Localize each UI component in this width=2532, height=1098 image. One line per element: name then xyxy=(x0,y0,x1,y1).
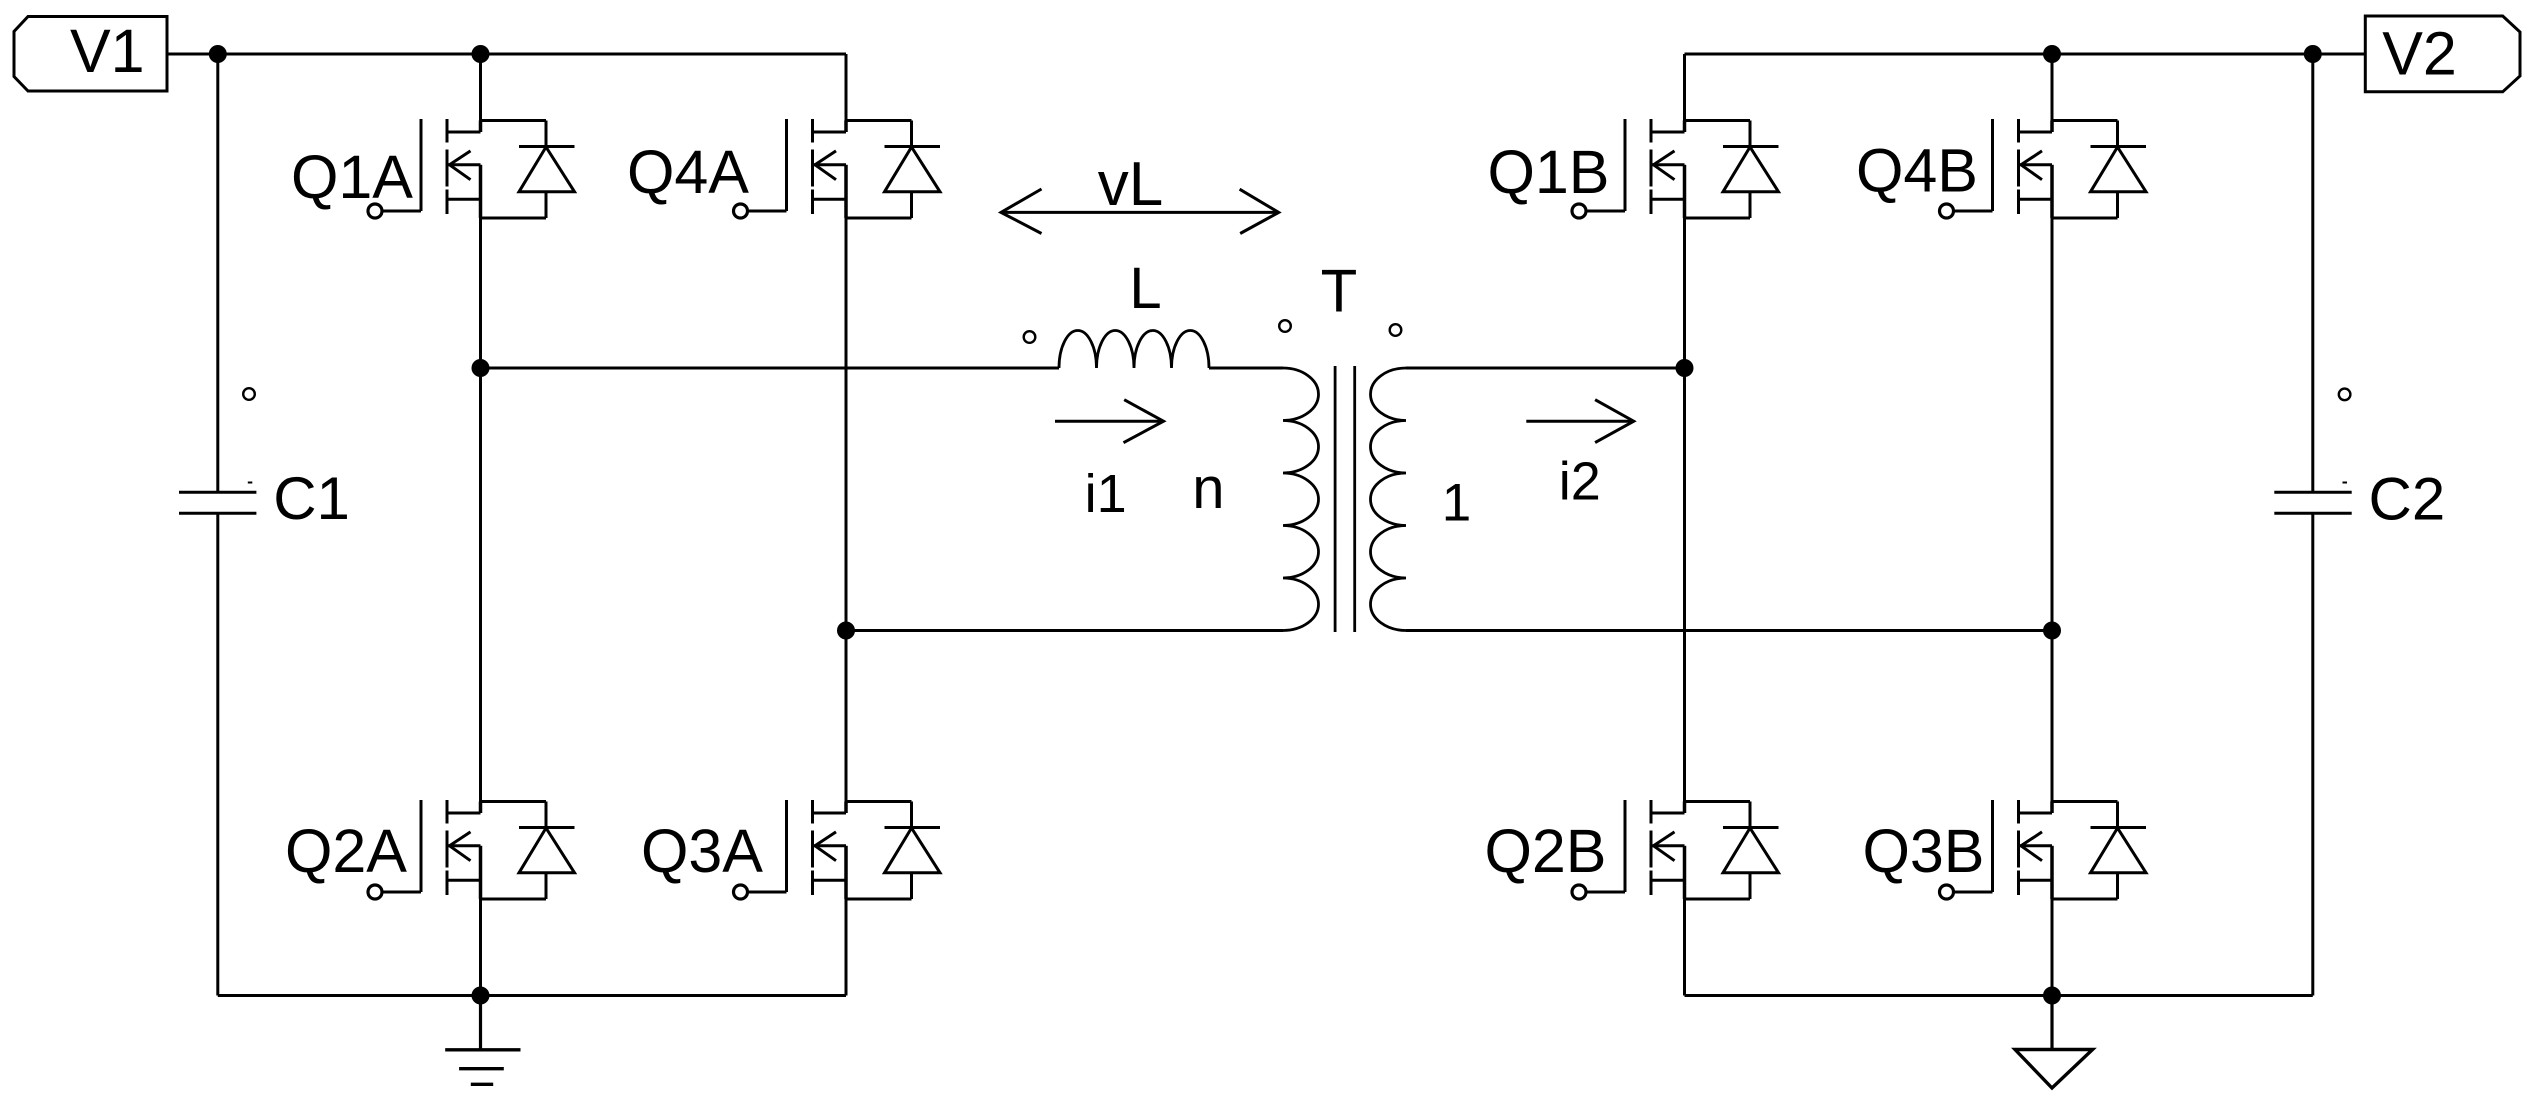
wire: Q4A source down to primary-return node xyxy=(845,218,848,631)
svg-text:n: n xyxy=(1192,456,1224,521)
svg-text:Q4B: Q4B xyxy=(1856,137,1978,205)
net flag V1 xyxy=(14,17,167,92)
wire: Q4A leg above transistor xyxy=(845,54,848,121)
svg-text:L: L xyxy=(1129,256,1161,321)
node: right bridge midpoint A xyxy=(1676,359,1694,377)
polarity mark T secondary xyxy=(1390,324,1402,336)
wire: left bottom rail xyxy=(218,994,846,997)
ground (earth) left xyxy=(479,996,482,1050)
transistor Q1A xyxy=(368,119,575,218)
svg-text:Q3B: Q3B xyxy=(1862,817,1984,885)
svg-text:i2: i2 xyxy=(1559,452,1601,512)
wire: secondary return to Q4B/Q3B node xyxy=(1406,629,2052,632)
transistor Q3B xyxy=(1940,800,2147,899)
svg-text:C1: C1 xyxy=(273,465,350,532)
wire: Q3A source to bottom rail xyxy=(845,899,848,996)
svg-text:Q4A: Q4A xyxy=(627,138,749,206)
wire: right top rail xyxy=(1685,53,2366,56)
wire: inductor to transformer primary xyxy=(1209,367,1283,370)
node: bottom ground junction (right) xyxy=(2043,987,2061,1005)
wire: mid node to inductor xyxy=(481,367,1060,370)
current arrow i2 xyxy=(1526,420,1633,423)
voltage arrow vL xyxy=(1001,211,1279,214)
transformer T core xyxy=(1335,366,1355,632)
transistor Q1B xyxy=(1572,119,1779,218)
wire: Q1A leg above transistor xyxy=(479,54,482,121)
wire: C1 rail lower xyxy=(216,513,219,995)
svg-text:T: T xyxy=(1321,258,1358,325)
wire: C2 rail lower xyxy=(2311,513,2314,995)
wire: mid node down to Q2A drain xyxy=(479,368,482,802)
wire: C2 rail upper xyxy=(2311,54,2314,492)
node: left bridge midpoint A xyxy=(472,359,490,377)
wire: C1 rail upper xyxy=(216,54,219,492)
node: V1/C1 junction xyxy=(209,45,227,63)
wire: node down to Q3B drain xyxy=(2051,631,2054,802)
svg-text:V2: V2 xyxy=(2382,20,2457,88)
wire: mid node down to Q2B drain xyxy=(1683,368,1686,802)
wire: Q4B leg above transistor xyxy=(2051,54,2054,121)
svg-text:vL: vL xyxy=(1098,150,1163,219)
transformer T secondary winding xyxy=(1371,368,1407,631)
svg-text:C2: C2 xyxy=(2369,466,2446,533)
wire: secondary top to right bridge midpoint xyxy=(1406,367,1685,370)
svg-text:V1: V1 xyxy=(70,17,145,85)
polarity mark C2 xyxy=(2339,389,2351,401)
wire: Q3B source to bottom rail xyxy=(2051,899,2054,996)
wire: right bottom rail xyxy=(1685,994,2313,997)
node: top of Q1A leg xyxy=(472,45,490,63)
transistor Q3A xyxy=(734,800,941,899)
svg-text:i1: i1 xyxy=(1085,464,1127,524)
transistor Q4A xyxy=(734,119,941,218)
wire: Q1B leg above transistor xyxy=(1683,54,1686,121)
node: right bridge midpoint B (secondary return) xyxy=(2043,622,2061,640)
inductor L xyxy=(1059,331,1209,369)
wire: Q1A source to mid node xyxy=(479,218,482,368)
svg-text:1: 1 xyxy=(1442,474,1471,533)
net flag V2 xyxy=(2365,16,2520,92)
wire: V1 top rail to Q4A drain xyxy=(167,53,846,56)
svg-text:Q2A: Q2A xyxy=(285,817,407,885)
transformer T primary winding xyxy=(1283,368,1319,631)
polarity mark L xyxy=(1024,331,1036,343)
wire: Q4B source down to secondary-return node xyxy=(2051,218,2054,631)
node: V2/C2 junction xyxy=(2304,45,2322,63)
svg-text:Q2B: Q2B xyxy=(1484,817,1606,885)
svg-text:Q1A: Q1A xyxy=(291,143,413,211)
capacitor C2 xyxy=(2274,492,2351,513)
wire: node down to Q3A drain xyxy=(845,631,848,802)
node: top of Q4B leg xyxy=(2043,45,2061,63)
transistor Q2B xyxy=(1572,800,1779,899)
ground (chassis triangle) right xyxy=(2050,996,2053,1050)
polarity mark T primary xyxy=(1279,320,1291,332)
node: left bridge midpoint B (primary return) xyxy=(837,622,855,640)
wire: Q2A source to bottom rail xyxy=(479,899,482,996)
svg-text:Q1B: Q1B xyxy=(1487,138,1609,206)
transistor Q2A xyxy=(368,800,575,899)
wire: Q1B source to mid node xyxy=(1683,218,1686,368)
wire: primary return to Q4A/Q3A node xyxy=(846,629,1283,632)
transistor Q4B xyxy=(1940,119,2147,218)
node: bottom ground junction (left) xyxy=(472,987,490,1005)
polarity mark C1 xyxy=(243,388,255,400)
svg-text:Q3A: Q3A xyxy=(641,817,763,885)
capacitor C1 xyxy=(179,492,256,513)
wire: Q2B source to bottom rail xyxy=(1683,899,1686,996)
current arrow i1 xyxy=(1055,420,1164,423)
